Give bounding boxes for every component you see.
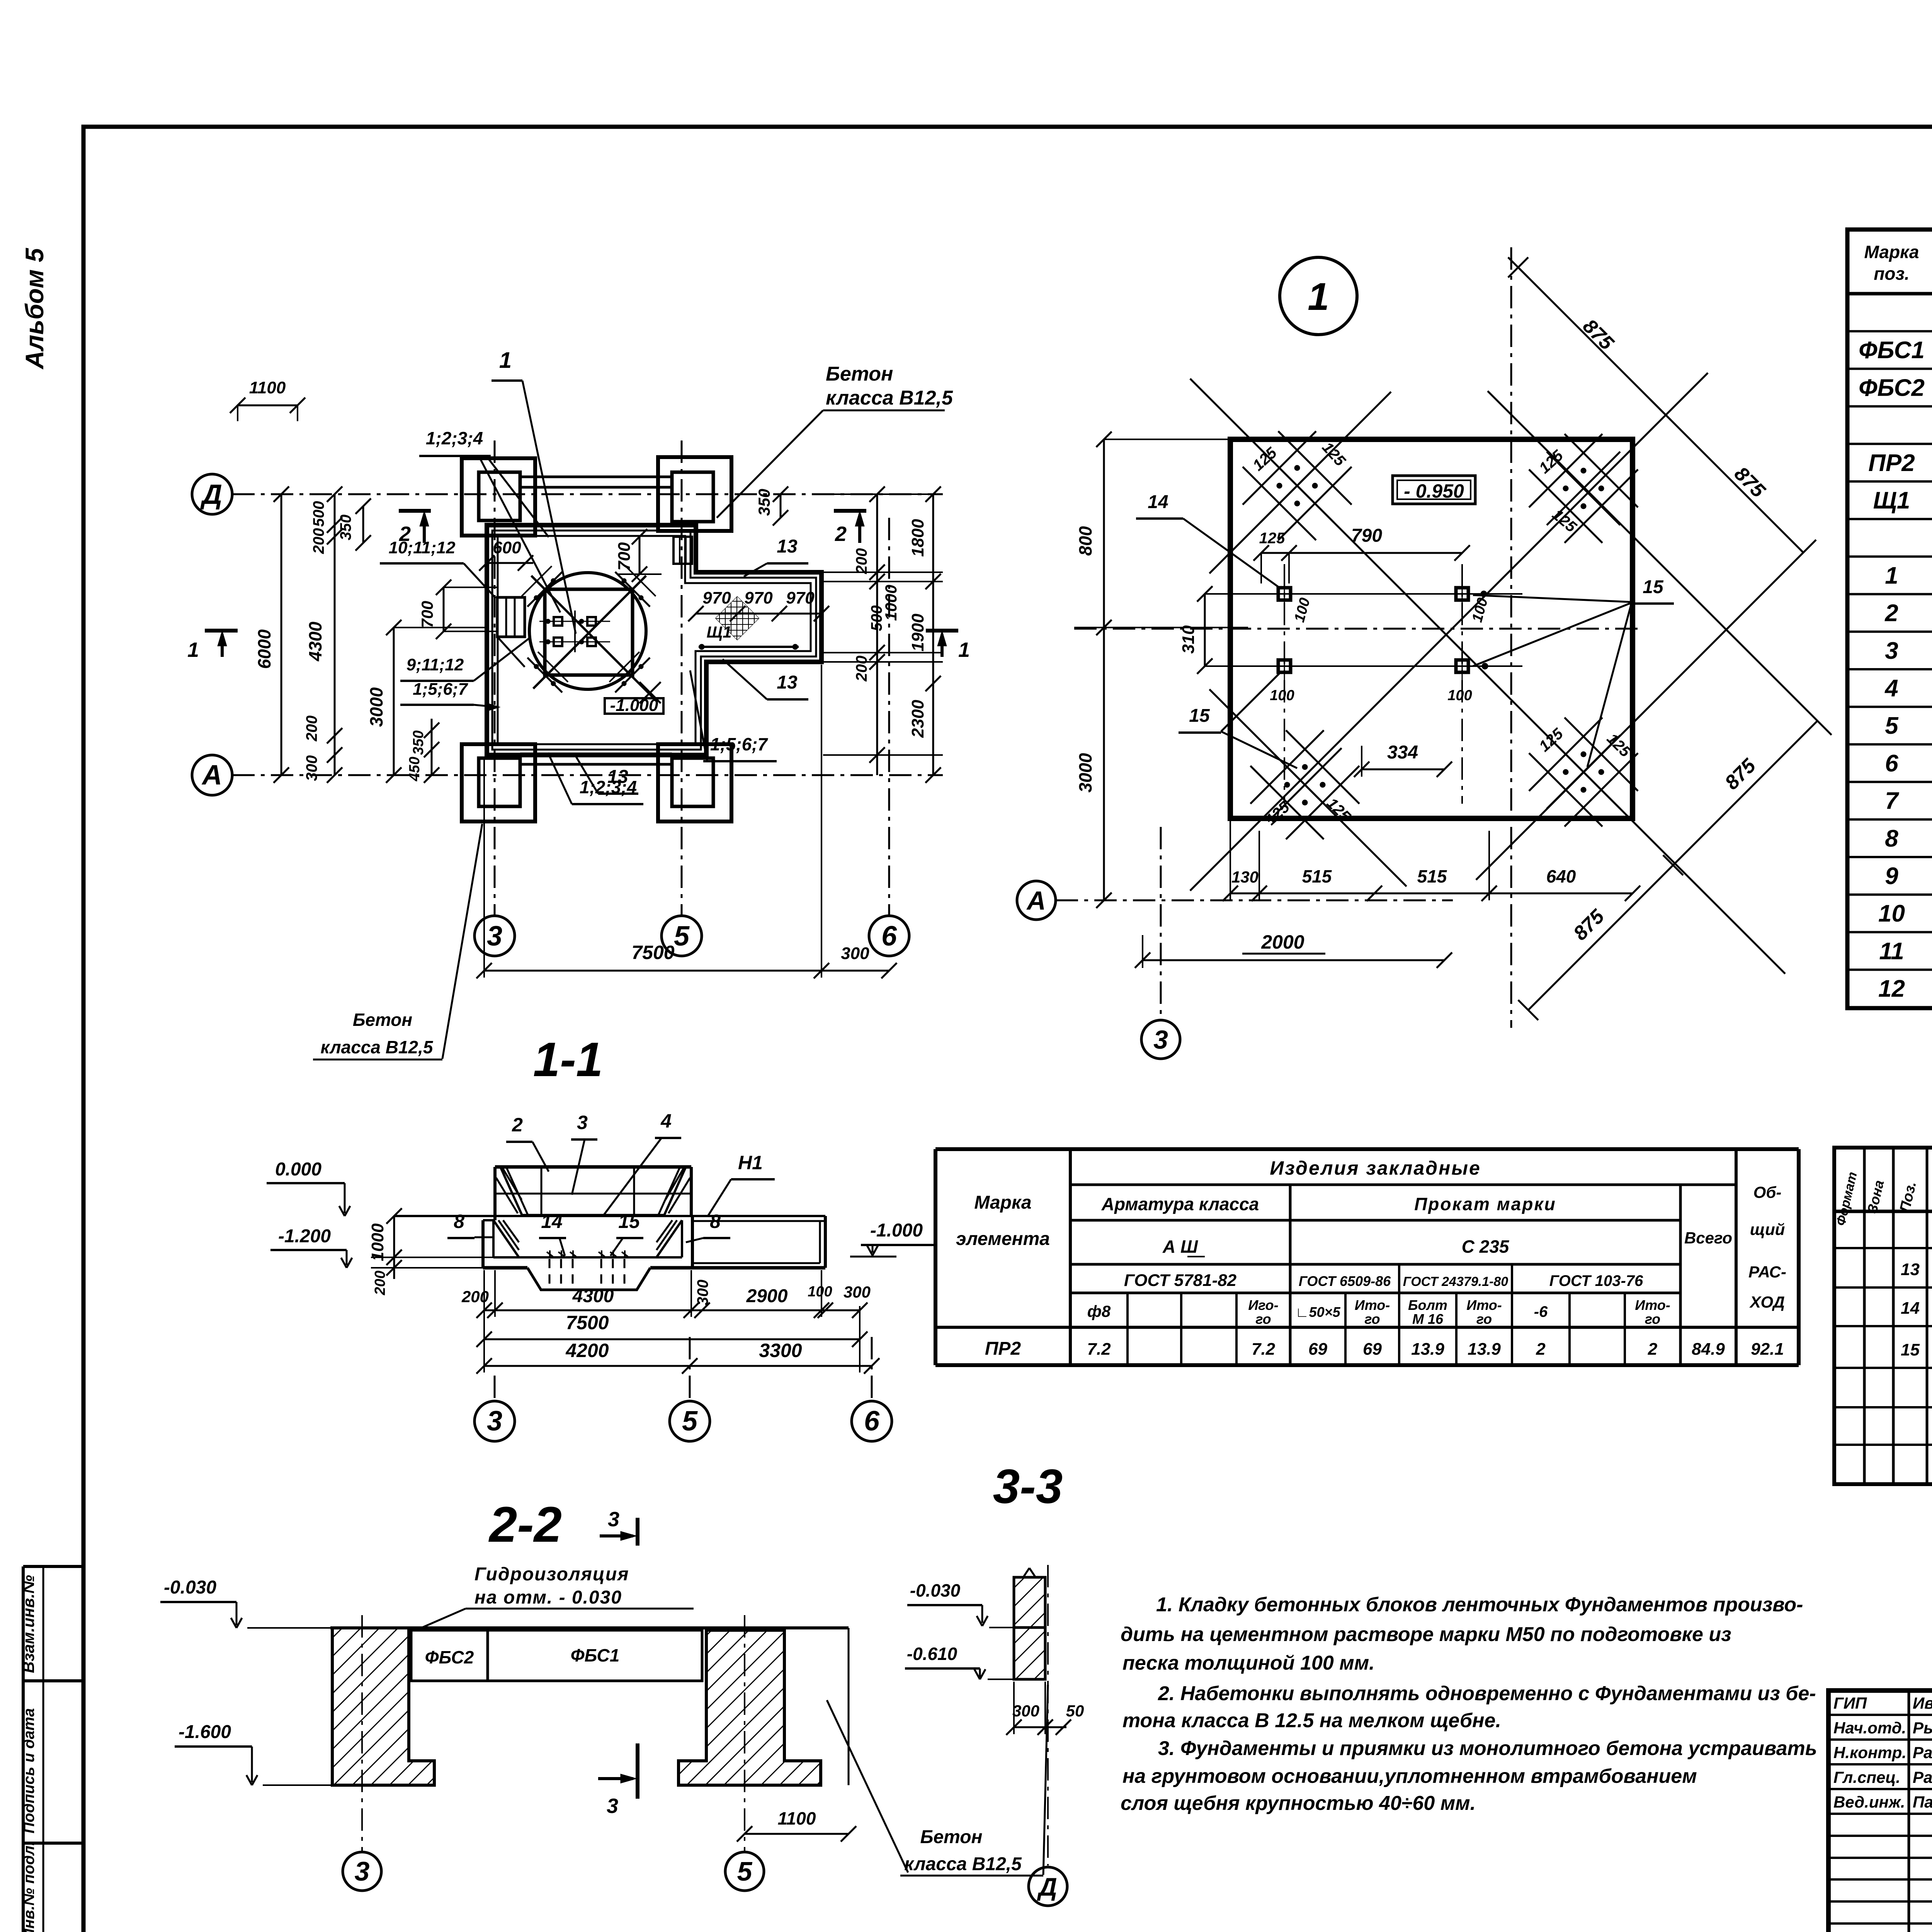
svg-text:1: 1: [958, 638, 970, 662]
svg-text:-1.000: -1.000: [870, 1220, 923, 1241]
plan: axis line D: [232, 493, 943, 495]
svg-text:1800: 1800: [908, 519, 927, 557]
svg-text:875: 875: [1578, 315, 1618, 355]
svg-text:8: 8: [1885, 825, 1898, 852]
section 1-1: pit floor: [493, 1256, 682, 1259]
svg-text:4: 4: [660, 1110, 672, 1132]
section 3-3: column leader: [1043, 1685, 1048, 1875]
plan: pit outer wall: [487, 525, 821, 755]
svg-text:0.000: 0.000: [275, 1159, 321, 1180]
svg-text:Зона: Зона: [1864, 1179, 1887, 1215]
title block left rows: [1828, 1714, 1932, 1716]
svg-text:Щ1: Щ1: [707, 623, 732, 641]
svg-text:3000: 3000: [1075, 753, 1095, 793]
svg-text:ГОСТ 24379.1-80: ГОСТ 24379.1-80: [1403, 1274, 1508, 1289]
section 2-2: block FBS2: [411, 1630, 488, 1681]
svg-text:слоя щебня крупностью 40÷60: слоя щебня крупностью 40÷60 мм.: [1121, 1792, 1476, 1815]
diamond plan: left dim 800: [1103, 439, 1105, 628]
svg-text:14: 14: [541, 1211, 563, 1232]
svg-text:200: 200: [372, 1270, 388, 1295]
diamond plan: centre dash horizontal: [1074, 628, 1638, 630]
svg-text:300: 300: [841, 944, 869, 963]
section 1-1: hopper right wall: [690, 1167, 693, 1216]
svg-text:го: го: [1645, 1311, 1660, 1327]
svg-text:ф8: ф8: [1087, 1302, 1111, 1320]
svg-text:50: 50: [1066, 1702, 1084, 1720]
svg-text:600: 600: [493, 538, 521, 557]
svg-text:515: 515: [1417, 866, 1447, 886]
section 2-2: block FBS1: [488, 1630, 702, 1681]
diamond plan: slab square: [1230, 439, 1633, 818]
section 3-3: axis dash line: [1047, 1565, 1049, 1866]
svg-text:6000: 6000: [254, 629, 274, 669]
plan: axis line 6: [888, 518, 890, 916]
plan: dim 700 inside: [639, 537, 641, 574]
node circle 1: [1280, 257, 1357, 335]
diamond plan: centre dash vertical: [1510, 247, 1512, 1028]
svg-text:2900: 2900: [746, 1286, 788, 1306]
svg-text:2: 2: [512, 1114, 523, 1136]
svg-text:-0.030: -0.030: [910, 1580, 961, 1600]
svg-text:РАС-: РАС-: [1748, 1263, 1786, 1281]
svg-text:ХОД: ХОД: [1749, 1293, 1785, 1311]
plan: beam between top pads: [520, 476, 672, 478]
svg-text:- 0.950: - 0.950: [1404, 480, 1464, 502]
diamond plan: SE dimension line 875+875: [1528, 720, 1818, 1010]
svg-text:Рашевский: Рашевский: [1913, 1768, 1932, 1786]
section 3-3: axis circle D: [1029, 1867, 1067, 1906]
section 2-2: dim 1100: [745, 1833, 849, 1835]
svg-text:15: 15: [1189, 706, 1210, 726]
svg-text:го: го: [1364, 1311, 1380, 1327]
diamond plan: dim 334: [1362, 769, 1444, 770]
spec table grid: [1847, 230, 1932, 1008]
svg-text:1: 1: [1308, 275, 1329, 318]
section 1-1: slab key: [527, 1268, 650, 1290]
svg-text:13: 13: [777, 536, 798, 557]
svg-text:92.1: 92.1: [1751, 1340, 1784, 1359]
svg-text:1900: 1900: [908, 614, 927, 651]
plan: axis circle D: [192, 474, 232, 514]
svg-text:ГИП: ГИП: [1833, 1694, 1867, 1712]
svg-text:700: 700: [418, 601, 436, 628]
plan: beam between bottom pads: [520, 753, 672, 755]
svg-text:4300: 4300: [305, 621, 325, 662]
section 2-2: cut mark 3 upper: [636, 1518, 639, 1546]
svg-text:5: 5: [682, 1406, 698, 1437]
section 2-2: axis circle 5: [725, 1852, 764, 1891]
svg-text:Прокат марки: Прокат марки: [1414, 1194, 1556, 1214]
section 2-2: pier centre dash right: [744, 1615, 745, 1851]
svg-text:Рашевский: Рашевский: [1913, 1743, 1932, 1762]
svg-text:-0.030: -0.030: [164, 1577, 216, 1598]
svg-text:Инв.№ подл.: Инв.№ подл.: [20, 1841, 37, 1932]
svg-text:3: 3: [1153, 1025, 1168, 1054]
svg-text:ФБС1: ФБС1: [1859, 337, 1925, 364]
svg-text:Рыбкина: Рыбкина: [1913, 1719, 1932, 1737]
svg-text:класса В12,5: класса В12,5: [321, 1037, 434, 1057]
svg-text:15: 15: [1643, 577, 1664, 597]
plan: left dim 3000: [393, 628, 395, 775]
svg-text:7: 7: [1885, 788, 1899, 815]
plan: dim 600: [487, 562, 533, 564]
plan: section mark 1 left: [205, 629, 238, 633]
plan: pad top-right: [658, 457, 731, 531]
svg-text:Ито-: Ито-: [1355, 1297, 1390, 1313]
svg-text:Панкратова: Панкратова: [1913, 1793, 1932, 1811]
plan: center circle: [529, 573, 646, 689]
svg-text:450: 450: [406, 757, 423, 781]
plan: bottom dim 7500-300: [484, 970, 889, 972]
section 1-1: dims row1: [484, 1310, 860, 1311]
svg-text:300: 300: [303, 755, 320, 781]
section 2-2: right pier: [679, 1630, 821, 1785]
plan: cage end cross: [639, 682, 661, 703]
svg-text:1-1: 1-1: [533, 1033, 603, 1087]
svg-text:Взам.инв.№: Взам.инв.№: [19, 1575, 37, 1673]
section 2-2: axis circle 3: [343, 1852, 381, 1891]
diamond plan: BR cluster NE centerline: [1476, 540, 1816, 880]
svg-text:2: 2: [399, 522, 411, 546]
svg-text:6: 6: [881, 921, 897, 952]
section 1-1: anchor dashes: [549, 1259, 551, 1287]
svg-text:поз.: поз.: [1874, 264, 1909, 284]
section 1-1: hopper left wall: [493, 1167, 497, 1220]
svg-text:100: 100: [1291, 596, 1313, 624]
svg-text:ФБС2: ФБС2: [425, 1647, 474, 1667]
svg-text:13: 13: [777, 672, 798, 693]
plan: left dim 700: [443, 587, 445, 631]
svg-text:6: 6: [1885, 750, 1898, 777]
svg-text:ПР2: ПР2: [1868, 450, 1915, 476]
svg-text:3: 3: [608, 1508, 619, 1531]
svg-text:350: 350: [755, 489, 773, 516]
svg-text:3: 3: [577, 1112, 588, 1133]
svg-text:1: 1: [499, 348, 512, 373]
svg-text:ГОСТ 5781-82: ГОСТ 5781-82: [1124, 1271, 1237, 1290]
svg-text:1;5;6;7: 1;5;6;7: [710, 734, 769, 754]
plan: embedded element 8 on top wall: [673, 537, 692, 564]
svg-text:640: 640: [1546, 866, 1576, 886]
svg-text:500: 500: [310, 501, 327, 527]
svg-text:200: 200: [310, 528, 327, 554]
svg-text:Бетон: Бетон: [920, 1827, 982, 1847]
section 3-3: dims 300 50: [1014, 1726, 1066, 1728]
diamond plan: dim 2000: [1143, 959, 1444, 961]
diamond plan: axis circle A: [1017, 881, 1056, 920]
svg-text:Изделия закладные: Изделия закладные: [1270, 1157, 1481, 1179]
diamond plan: axis line 3: [1160, 827, 1162, 1020]
svg-text:2: 2: [1536, 1340, 1546, 1359]
plan: level box -1.000: [605, 698, 663, 714]
svg-text:Арматура класса: Арматура класса: [1101, 1194, 1259, 1214]
plan: anchor cage square: [545, 589, 633, 675]
plan: left dim 350-450: [431, 719, 433, 775]
svg-text:13.9: 13.9: [1411, 1340, 1444, 1359]
svg-text:334: 334: [1387, 742, 1418, 763]
plan: shield hatch patch: [715, 596, 759, 640]
svg-text:тона класса В 12.5 на мелк: тона класса В 12.5 на мелком щебне.: [1122, 1709, 1501, 1732]
section 2-2: cut mark 3 lower: [636, 1743, 639, 1799]
svg-text:ГОСТ 103-76: ГОСТ 103-76: [1549, 1272, 1643, 1289]
svg-text:3: 3: [487, 1406, 502, 1437]
svg-text:970: 970: [786, 588, 815, 607]
plan: axis line 3: [494, 440, 496, 916]
section 1-1: pit walls: [481, 1220, 485, 1268]
svg-text:2: 2: [835, 522, 847, 546]
svg-text:Формат: Формат: [1833, 1170, 1860, 1227]
plan: cage diagonal 2: [533, 576, 646, 689]
diamond plan: bottom dims 130-515-515-640: [1230, 893, 1633, 895]
title block frame: [1828, 1690, 1932, 1932]
svg-text:4300: 4300: [572, 1286, 614, 1306]
svg-text:А Ш: А Ш: [1162, 1236, 1198, 1257]
svg-text:300: 300: [1012, 1702, 1039, 1720]
svg-text:14: 14: [1148, 492, 1168, 512]
svg-text:12: 12: [1878, 976, 1905, 1002]
svg-text:300: 300: [694, 1280, 711, 1306]
svg-text:4: 4: [1884, 675, 1898, 702]
svg-text:69: 69: [1363, 1340, 1382, 1359]
plan: top dim 1100: [238, 405, 298, 406]
svg-text:2-2: 2-2: [488, 1496, 562, 1553]
svg-text:-1.200: -1.200: [278, 1226, 331, 1247]
svg-text:1000: 1000: [368, 1223, 387, 1261]
svg-text:100: 100: [1469, 596, 1491, 624]
svg-text:-1.000: -1.000: [610, 696, 658, 715]
svg-text:84.9: 84.9: [1692, 1340, 1725, 1359]
section 2-2: left pier: [332, 1628, 434, 1785]
svg-text:класса В12,5: класса В12,5: [826, 387, 953, 409]
svg-text:125: 125: [1536, 447, 1567, 477]
svg-text:Всего: Всего: [1684, 1229, 1732, 1247]
svg-text:125: 125: [1259, 530, 1285, 547]
svg-text:3: 3: [607, 1794, 618, 1818]
svg-text:∟50×5: ∟50×5: [1295, 1304, 1340, 1320]
svg-text:1;5;6;7: 1;5;6;7: [413, 680, 468, 699]
section 1-1: left vertical dim 1000-200: [393, 1216, 395, 1279]
plan: right dim line B: [932, 494, 934, 775]
svg-text:8: 8: [710, 1211, 721, 1232]
svg-text:Альбом 5: Альбом 5: [20, 248, 49, 370]
svg-text:100: 100: [808, 1284, 832, 1300]
svg-text:8: 8: [454, 1211, 464, 1232]
svg-text:3. Фундаменты и приямки из: 3. Фундаменты и приямки из монолитного б…: [1158, 1737, 1817, 1760]
plan: top dim 350: [362, 506, 364, 543]
section 3-3: column upper: [1014, 1577, 1045, 1628]
section 1-1: right slab H1: [692, 1220, 825, 1222]
section 1-1: bottom line: [483, 1266, 527, 1270]
svg-text:4200: 4200: [565, 1340, 609, 1361]
section 1-1: ground level line: [394, 1215, 825, 1217]
svg-text:3000: 3000: [366, 687, 386, 727]
svg-text:13.9: 13.9: [1468, 1340, 1501, 1359]
plan: right dim line A: [876, 494, 878, 775]
section 1-1: axis circle 6: [871, 1337, 873, 1401]
svg-text:1. Кладку бетонных блоков л: 1. Кладку бетонных блоков ленточных Фунд…: [1156, 1594, 1803, 1616]
svg-text:130: 130: [1231, 868, 1259, 886]
svg-text:310: 310: [1179, 625, 1198, 654]
svg-text:200: 200: [853, 656, 870, 682]
diamond plan: anchor cluster BL: [1250, 730, 1324, 804]
svg-text:Иванова: Иванова: [1913, 1694, 1932, 1712]
svg-text:ГОСТ 6509-86: ГОСТ 6509-86: [1299, 1273, 1391, 1289]
svg-text:Вед.инж.: Вед.инж.: [1833, 1793, 1905, 1811]
plan: shield plank line: [699, 646, 799, 648]
svg-text:125: 125: [1604, 730, 1634, 761]
svg-text:1;2;3;4: 1;2;3;4: [426, 428, 483, 448]
svg-text:14: 14: [1901, 1299, 1920, 1318]
svg-text:3300: 3300: [759, 1340, 802, 1361]
plan: left dim line 4300: [334, 494, 336, 775]
svg-text:Марка: Марка: [1864, 242, 1919, 262]
left stamp boxes: [23, 1565, 83, 1568]
svg-text:Д: Д: [1037, 1872, 1057, 1901]
svg-text:7.2: 7.2: [1087, 1340, 1111, 1359]
diamond plan: anchor cluster TL: [1243, 431, 1316, 505]
plan: axis circle 5: [662, 916, 702, 956]
svg-text:500: 500: [868, 605, 885, 631]
plan: right extension lines: [823, 493, 943, 495]
diamond plan: dim 790: [1261, 552, 1462, 554]
svg-text:790: 790: [1351, 526, 1382, 546]
svg-text:Иго-: Иго-: [1248, 1297, 1278, 1313]
section 1-1: hopper rails: [495, 1193, 691, 1195]
svg-text:Бетон: Бетон: [353, 1010, 412, 1030]
svg-text:11: 11: [1879, 938, 1904, 964]
svg-text:200: 200: [303, 716, 320, 742]
plan: pit inner wall line: [498, 536, 811, 744]
svg-text:-0.610: -0.610: [907, 1644, 957, 1664]
svg-text:3: 3: [355, 1856, 370, 1886]
diamond plan: anchor cluster TR: [1529, 434, 1602, 507]
svg-text:100: 100: [1447, 687, 1472, 704]
svg-text:1: 1: [1885, 562, 1898, 589]
svg-text:1: 1: [187, 638, 199, 662]
plan: cage corner marks: [527, 572, 562, 607]
svg-text:Бетон: Бетон: [826, 363, 893, 385]
diamond plan: axis circle 3: [1141, 1020, 1180, 1059]
svg-text:2000: 2000: [1261, 931, 1304, 953]
svg-text:Гидроизоляция: Гидроизоляция: [474, 1564, 629, 1585]
svg-text:7500: 7500: [631, 942, 674, 963]
parts table grid: [935, 1147, 1799, 1151]
svg-text:Подпись и дата: Подпись и дата: [20, 1708, 37, 1833]
svg-text:1100: 1100: [249, 378, 286, 397]
plan: pad bottom-right: [658, 744, 731, 821]
specification2 grid: [1834, 1148, 1932, 1484]
svg-text:875: 875: [1730, 463, 1770, 502]
svg-text:Щ1: Щ1: [1873, 487, 1910, 514]
svg-text:3-3: 3-3: [993, 1460, 1063, 1514]
section 1-1: dims row3 4200-3300: [484, 1365, 872, 1367]
plan: cage diagonal 1: [531, 576, 657, 701]
section 3-3: column lower: [1014, 1628, 1045, 1679]
plan: section mark 2 left: [399, 509, 431, 513]
svg-text:875: 875: [1721, 754, 1760, 794]
svg-text:6: 6: [864, 1406, 880, 1437]
diamond plan: TR cluster SE centerline: [1488, 391, 1832, 735]
svg-text:15: 15: [618, 1211, 640, 1232]
svg-text:125: 125: [1250, 444, 1281, 474]
section 1-1: pit wall left slope: [493, 1220, 519, 1257]
svg-text:класса В12,5: класса В12,5: [904, 1854, 1022, 1874]
svg-text:970: 970: [744, 588, 773, 607]
svg-text:5: 5: [737, 1856, 753, 1886]
svg-text:Болт: Болт: [1408, 1297, 1447, 1313]
svg-text:Гл.спец.: Гл.спец.: [1833, 1768, 1900, 1786]
svg-text:1;2;3;4: 1;2;3;4: [580, 777, 637, 797]
svg-text:350: 350: [337, 515, 354, 541]
svg-text:3: 3: [1885, 638, 1898, 664]
svg-text:10;11;12: 10;11;12: [389, 538, 456, 557]
svg-text:350: 350: [410, 730, 427, 755]
svg-text:2300: 2300: [908, 700, 927, 738]
plan: anchor bolts: [554, 617, 562, 626]
diamond plan: axis line A: [1056, 900, 1453, 901]
svg-text:А: А: [1026, 886, 1046, 915]
svg-text:15: 15: [1901, 1340, 1920, 1359]
plan: dim 970x3: [696, 613, 821, 615]
section 1-1: dims row2 7500: [484, 1338, 860, 1340]
svg-text:125: 125: [1319, 439, 1349, 470]
diamond plan: TL cluster NE centerline: [1209, 392, 1391, 573]
diamond plan: anchor bolts: [1278, 588, 1291, 600]
plan: section mark 2 right: [834, 509, 866, 513]
svg-text:Поз.: Поз.: [1897, 1180, 1920, 1214]
svg-text:Д: Д: [200, 479, 222, 510]
plan: axis circle 6: [869, 916, 909, 956]
diamond plan: diagonal TL-BR: [1190, 379, 1785, 974]
diamond plan: level box -0.950: [1393, 476, 1475, 504]
svg-text:300: 300: [844, 1283, 871, 1301]
svg-text:515: 515: [1302, 866, 1332, 886]
svg-text:2: 2: [1884, 600, 1898, 627]
svg-text:970: 970: [702, 588, 731, 607]
plan: axis line A: [232, 774, 943, 776]
section 2-2: top surface line: [330, 1626, 849, 1629]
svg-text:ПР2: ПР2: [985, 1338, 1021, 1359]
svg-text:го: го: [1476, 1311, 1492, 1327]
svg-text:800: 800: [1075, 526, 1095, 556]
section 1-1: pit wall right slope: [656, 1220, 682, 1257]
svg-text:Ито-: Ито-: [1635, 1297, 1670, 1313]
section 2-2: right edge line: [848, 1628, 850, 1785]
svg-text:69: 69: [1308, 1340, 1327, 1359]
svg-text:3: 3: [487, 921, 502, 952]
svg-text:-1.600: -1.600: [179, 1722, 231, 1742]
svg-text:Н1: Н1: [738, 1152, 763, 1173]
section 1-1: axis circle 3: [494, 1376, 496, 1401]
plan: pad top-left: [462, 458, 535, 536]
title block left columns: [1908, 1690, 1910, 1932]
svg-text:-6: -6: [1534, 1303, 1548, 1320]
svg-text:7500: 7500: [566, 1312, 609, 1333]
svg-text:7.2: 7.2: [1252, 1340, 1276, 1359]
svg-text:Н.контр.: Н.контр.: [1833, 1743, 1906, 1762]
diamond plan: bolt axis lines: [1284, 564, 1285, 804]
section 2-2: pier centre dash left: [361, 1615, 363, 1851]
plan: axis circle 3: [474, 916, 515, 956]
plan: section mark 1 right: [926, 629, 958, 633]
svg-text:песка толщиной 100 мм.: песка толщиной 100 мм.: [1122, 1652, 1375, 1674]
svg-text:дить на цементном растворе: дить на цементном растворе марки М50 по …: [1121, 1623, 1731, 1646]
svg-text:А: А: [201, 760, 222, 791]
svg-text:элемента: элемента: [956, 1229, 1050, 1249]
svg-text:5: 5: [1885, 713, 1899, 739]
svg-text:13: 13: [1901, 1260, 1920, 1279]
diamond plan: NE dimension line 875+875: [1518, 267, 1803, 553]
